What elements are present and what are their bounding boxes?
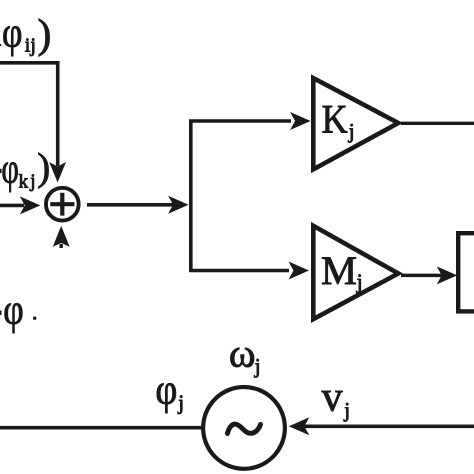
wire summing junction output to branch node [87,203,173,207]
arrowhead into box [437,266,458,284]
svg-text:φ: φ [2,9,23,56]
wire left input into summing junction [0,204,24,208]
branch wire: vertical split to K and M amplifiers [191,121,291,271]
amplifier M_j triangle [313,226,398,319]
svg-text:j: j [356,270,363,294]
wire K_j output to right edge [401,122,474,125]
label sin(phi_ij) fragment top-left [0,9,51,57]
wire v_j input from right edge [304,424,474,428]
svg-text:k: k [19,172,29,193]
svg-text:j: j [343,398,350,422]
arrowhead into oscillator [289,417,310,435]
svg-text:M: M [321,248,357,293]
svg-text:): ) [38,10,52,57]
amplifier K_j triangle [313,78,398,169]
summing junction circle [46,188,79,221]
svg-text:j: j [348,119,355,143]
svg-text:φ: φ [155,366,177,413]
arrowhead into branch node [168,196,189,214]
wire M_j output [401,274,443,278]
wire oscillator output to left edge [0,426,203,430]
svg-text:j: j [177,390,184,414]
box at right edge [458,233,474,311]
arrowhead into K amplifier [290,112,311,130]
svg-text:v: v [322,374,343,420]
svg-text:j: j [254,354,261,378]
arrowhead left input [20,196,41,214]
svg-text:φ: φ [3,286,24,333]
svg-text:j: j [29,171,35,192]
label dot-phi fragment left middle [0,286,36,333]
svg-text:φ: φ [1,145,19,192]
wire from sin(phi_ij) label: horizontal then down into summing node [0,63,58,166]
arrowhead up into summing junction bottom [53,226,70,247]
label sin(phi_kj) fragment [0,145,50,192]
svg-text:ij: ij [25,34,36,56]
svg-text:K: K [322,97,348,142]
svg-text:): ) [37,146,50,189]
oscillator circle [203,387,285,469]
svg-text:ω: ω [229,331,256,376]
plus sign in summing junction [50,202,74,206]
arrowhead down into summing junction [49,162,66,183]
tilde inside oscillator [228,424,261,433]
arrowhead into M amplifier [289,262,310,280]
